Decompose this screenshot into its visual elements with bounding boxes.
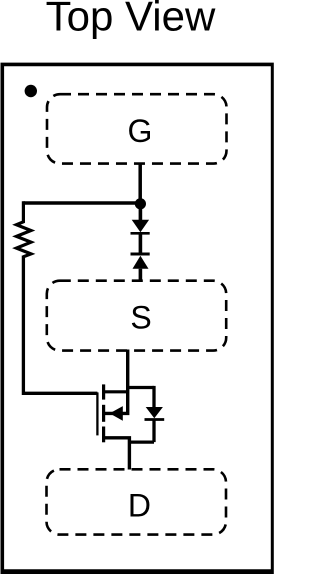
wire bottom to body diode <box>129 440 154 443</box>
svg-text:G: G <box>128 113 153 149</box>
body diode D1 lead bottom <box>152 420 155 443</box>
wire gate node to zener Z1 <box>139 204 143 220</box>
MOSFET Q1 channel segment middle <box>102 405 105 422</box>
pin 1 dot <box>25 85 37 97</box>
MOSFET Q1 gate bar <box>96 392 98 435</box>
package outline <box>1 63 274 574</box>
zener Z2 triangle <box>133 256 149 269</box>
node gate junction <box>135 198 146 209</box>
MOSFET Q1 channel segment bottom <box>102 427 105 443</box>
body diode D1 triangle <box>146 407 163 418</box>
body diode D1 lead top <box>152 386 155 408</box>
pad D <box>47 469 227 534</box>
MOSFET Q1 channel segment top <box>102 384 105 399</box>
pad G <box>47 94 227 163</box>
wire top to body diode <box>127 386 154 389</box>
wire resistor to gate lead <box>23 256 97 394</box>
wire S pad to body stub <box>104 350 128 414</box>
svg-text:Top View: Top View <box>46 0 216 39</box>
MOSFET Q1 body arrow <box>110 406 123 421</box>
zener Z1 cathode bar <box>131 232 150 235</box>
svg-text:S: S <box>130 300 151 336</box>
wire G to gate node <box>138 163 142 204</box>
zener Z2 cathode bar <box>131 253 150 256</box>
body diode D1 cathode bar <box>145 418 165 421</box>
zener Z1 triangle <box>132 220 149 233</box>
svg-text:D: D <box>128 488 151 524</box>
resistor R (gate resistor) <box>16 201 31 256</box>
wire gate node to resistor <box>23 201 140 204</box>
pad S <box>47 281 226 351</box>
wire zener Z2 to S pad <box>139 269 143 281</box>
wire zener Z1 to zener Z2 <box>139 233 143 254</box>
MOSFET Q1 source stub <box>104 390 128 393</box>
MOSFET Q1 drain stub and wire to D pad <box>104 438 130 470</box>
